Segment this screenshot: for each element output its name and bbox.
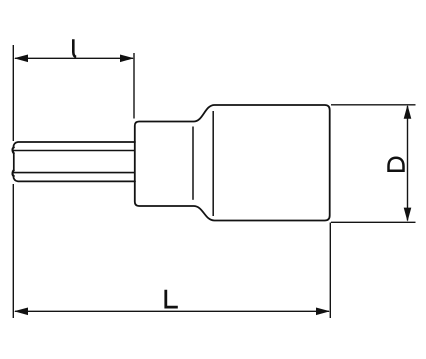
arrowheads <box>14 55 411 316</box>
arrow l right <box>120 55 134 63</box>
body face edge line <box>212 111 214 216</box>
arrow L left <box>14 308 28 316</box>
arrow L right <box>316 308 330 316</box>
socket silhouette: collar, S-curve shoulders, main cylinder <box>135 105 330 221</box>
arrow l left <box>14 55 28 63</box>
collar inner edge line <box>192 127 194 200</box>
label D (rotated 90 deg CCW) <box>389 158 404 171</box>
extension line D top <box>331 104 416 106</box>
dimension line L <box>15 310 329 312</box>
hex bit inner facet line lower <box>14 172 135 174</box>
dimension line D <box>407 106 409 221</box>
hex bit inner facet line upper <box>14 150 135 152</box>
socket holder body outline (collar + S-curves + main body) <box>135 105 330 221</box>
left extension line (lower part) <box>12 184 14 318</box>
dimension line l <box>15 57 133 59</box>
arrow D bottom <box>404 208 412 222</box>
left extension line (upper part) <box>12 45 14 141</box>
dimension graphics <box>13 45 415 318</box>
hex bit shank outline <box>12 142 135 181</box>
label L <box>166 290 178 307</box>
hex bit end chamfer bump upper <box>13 147 14 153</box>
hex bit shank silhouette with chamfered tip <box>12 142 135 181</box>
label l <box>73 39 76 57</box>
extension line D bottom <box>331 221 416 223</box>
right extension line for l <box>133 53 135 119</box>
arrow D top <box>404 105 412 119</box>
hex bit end chamfer bump lower <box>13 170 14 176</box>
right extension line for L <box>329 223 331 319</box>
